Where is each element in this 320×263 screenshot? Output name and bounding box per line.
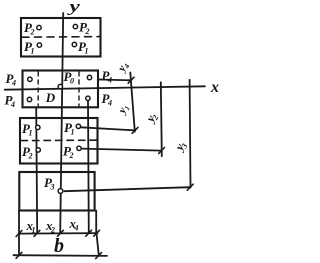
svg-text:x4: x4 bbox=[69, 216, 79, 233]
svg-text:x: x bbox=[210, 79, 219, 96]
svg-text:P3: P3 bbox=[44, 175, 54, 192]
svg-text:y4: y4 bbox=[115, 60, 132, 76]
svg-text:P1: P1 bbox=[78, 39, 88, 56]
svg-text:P2: P2 bbox=[22, 144, 32, 161]
svg-text:P2: P2 bbox=[24, 20, 34, 37]
svg-text:y3: y3 bbox=[171, 139, 189, 155]
svg-text:y1: y1 bbox=[115, 102, 132, 118]
svg-text:P2: P2 bbox=[79, 20, 89, 37]
svg-text:P4: P4 bbox=[102, 68, 112, 85]
svg-text:P4: P4 bbox=[102, 91, 112, 108]
svg-text:y2: y2 bbox=[142, 111, 160, 127]
svg-text:D: D bbox=[45, 90, 56, 105]
svg-text:P1: P1 bbox=[22, 121, 32, 138]
svg-text:P1: P1 bbox=[24, 39, 34, 56]
svg-text:b: b bbox=[54, 235, 64, 257]
svg-text:P1: P1 bbox=[64, 120, 74, 137]
svg-text:P4: P4 bbox=[5, 93, 15, 110]
svg-text:x1: x1 bbox=[26, 218, 36, 235]
svg-text:x2: x2 bbox=[45, 218, 55, 235]
svg-text:P2: P2 bbox=[63, 144, 73, 161]
svg-text:P4: P4 bbox=[6, 71, 16, 88]
svg-text:y: y bbox=[67, 0, 80, 16]
